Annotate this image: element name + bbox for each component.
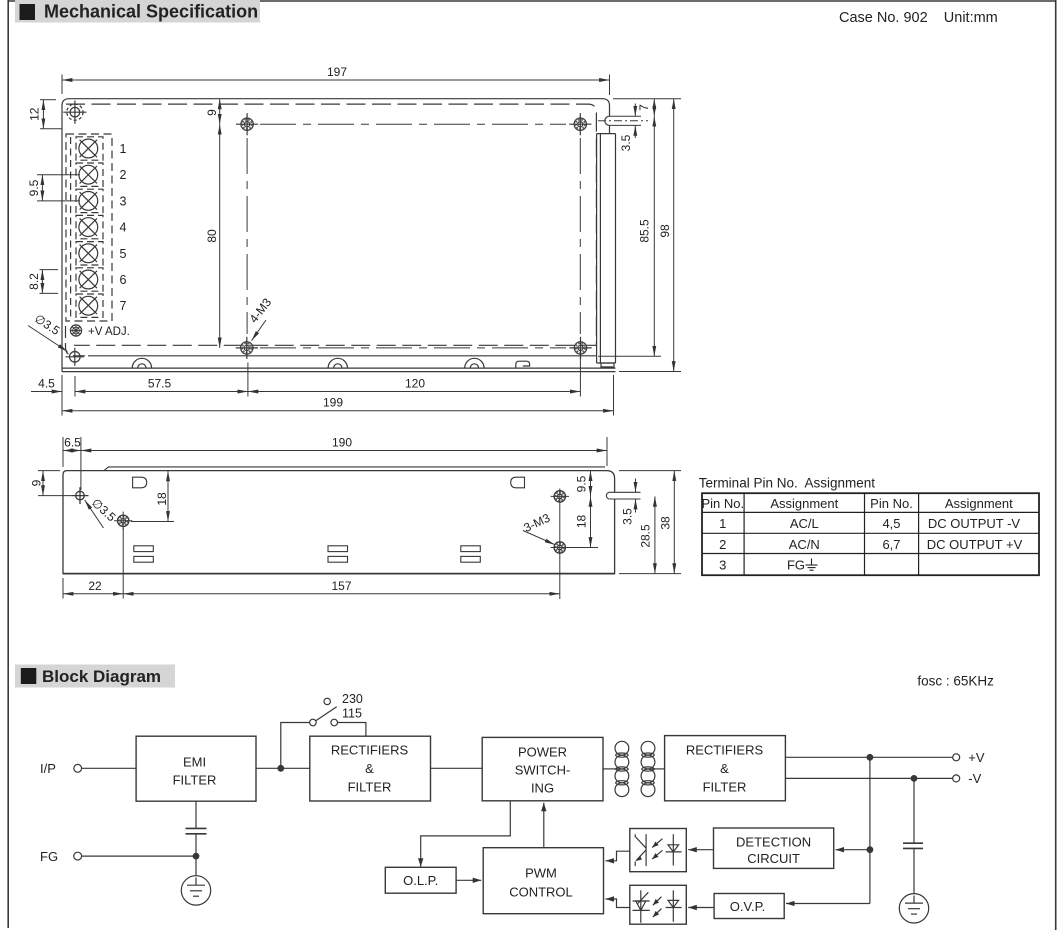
terminal 3 (76, 189, 103, 212)
section header: Mechanical Specification (15, 0, 260, 23)
feedback rail down from +V (869, 757, 871, 903)
side view: vent slots group 1 (134, 546, 154, 562)
wire capacitor C1 to FG node (195, 834, 197, 856)
table row 2 (719, 537, 1022, 552)
dim 9.5 (37, 175, 80, 201)
dim 57.5 (75, 391, 248, 393)
bottom dims extension lines (side view) (63, 528, 123, 599)
svg-text:POWER: POWER (518, 745, 567, 760)
-V terminal (953, 775, 960, 782)
wire PWM to power switching with arrow (543, 803, 545, 848)
terminal 4 (76, 215, 103, 238)
top view: case bottom flange edges (62, 368, 616, 372)
svg-text:1: 1 (120, 142, 127, 156)
svg-text:8.2: 8.2 (27, 273, 41, 290)
dim 18 (side view right) (567, 496, 598, 547)
svg-text:Mechanical Specification: Mechanical Specification (44, 2, 258, 22)
wire EMI filter to capacitor C1 (195, 801, 197, 828)
wire detection to optocoupler 1 with arrow (688, 849, 713, 851)
bottom flange arch tab 1 (132, 358, 151, 368)
svg-text:Pin No.: Pin No. (701, 496, 744, 511)
side view: top slot tab left (133, 477, 147, 488)
text RECTIFIERS & FILTER 2 (686, 743, 764, 795)
text RECTIFIERS & FILTER 1 (331, 743, 409, 795)
+V ADJ potentiometer screw (70, 325, 81, 336)
dim 38 (673, 471, 675, 574)
text DETECTION CIRCUIT (736, 835, 811, 867)
svg-text:+V ADJ.: +V ADJ. (88, 326, 130, 338)
svg-text:3-M3: 3-M3 (521, 511, 552, 535)
terminal 1 (76, 137, 103, 160)
side view: M3 hole left-bottom (114, 512, 132, 530)
svg-text:I/P: I/P (40, 761, 56, 776)
svg-text:4,5: 4,5 (882, 516, 900, 531)
protective earth symbol (output) (899, 894, 928, 923)
svg-text:2: 2 (719, 537, 726, 552)
svg-text:FILTER: FILTER (173, 773, 217, 788)
top view: case outline (62, 99, 610, 372)
dim 28.5 (654, 496, 656, 573)
bottom flange hook tab (516, 361, 530, 368)
wire I/P to EMI filter (82, 767, 137, 769)
terminal 6 (76, 268, 103, 291)
dim 157 (123, 593, 560, 595)
svg-text:5: 5 (120, 247, 127, 261)
dim 22 (63, 593, 123, 595)
terminal 7 (76, 294, 103, 317)
svg-text:-V: -V (968, 771, 981, 786)
svg-text:4: 4 (120, 221, 127, 235)
mounting hole M3 top-right (569, 113, 591, 135)
top view: dashed inner cover outline (66, 104, 597, 356)
wire OLP to PWM with arrow (456, 879, 481, 881)
svg-text:Pin No.: Pin No. (870, 496, 913, 511)
Y-capacitor C1 to FG (186, 828, 207, 833)
side view: M3 hole right-lower (551, 542, 569, 553)
output filter capacitor C2 (903, 843, 923, 848)
terminal pin assignment table (699, 476, 1039, 576)
terminal 5 (76, 242, 103, 265)
table row 1 (719, 516, 1020, 531)
page border left (7, 0, 9, 928)
svg-text:120: 120 (405, 377, 425, 391)
side view: vent slots group 3 (461, 546, 481, 562)
svg-text:85.5: 85.5 (638, 219, 652, 243)
svg-text:9: 9 (205, 109, 219, 116)
protective earth symbol (FG) (181, 876, 210, 905)
text POWER SWITCHING (515, 745, 571, 796)
svg-text:RECTIFIERS: RECTIFIERS (331, 743, 409, 758)
svg-text:80: 80 (205, 229, 219, 243)
dim 197 extension lines (62, 75, 610, 96)
dim 9 (top) (219, 99, 221, 124)
dim 199 (62, 410, 614, 412)
dim 85.5 (653, 116, 655, 356)
side view: bottom edge emphasis (63, 573, 615, 575)
wire OVP to optocoupler 2 with arrow (688, 907, 714, 909)
OVP box (714, 894, 784, 919)
svg-text:6: 6 (120, 273, 127, 287)
top view: bracket keyhole slot (598, 116, 648, 125)
node FG ground (193, 853, 199, 859)
text EMI FILTER (173, 755, 217, 788)
top view: terminal block dashed cover (66, 134, 112, 321)
label 3-M3 leader (523, 531, 555, 545)
top view: chassis screw top-left (63, 101, 86, 124)
svg-text:230: 230 (342, 692, 363, 706)
voltage selector switch (310, 698, 338, 726)
svg-text:18: 18 (575, 515, 589, 529)
side view: flange keyhole slot right (606, 492, 640, 499)
dim 3.5 (top view, outside arrows) (634, 104, 636, 139)
dim 190 line (81, 450, 607, 452)
svg-text:98: 98 (658, 224, 672, 238)
dim 6.5 (63, 450, 81, 452)
svg-text:PWM: PWM (525, 866, 557, 881)
dim 7 (653, 99, 655, 117)
svg-text:DETECTION: DETECTION (736, 835, 811, 850)
top view: terminal tabs dashed line (70, 137, 72, 318)
label 4-M3 leader arrow (252, 320, 267, 341)
table row 3 (719, 558, 805, 573)
svg-text:28.5: 28.5 (639, 524, 653, 548)
wire +V output (785, 756, 952, 758)
svg-text:∅3.5: ∅3.5 (89, 496, 119, 525)
svg-text:SWITCH-: SWITCH- (515, 763, 571, 778)
svg-text:AC/N: AC/N (789, 537, 820, 552)
wire rectifiers to power switching (431, 767, 483, 769)
dim 80 (219, 124, 221, 348)
svg-text:157: 157 (331, 579, 351, 593)
svg-text:+V: +V (968, 750, 985, 765)
wire rail to detection circuit (836, 849, 870, 851)
wire transformer to rectifiers 2 (652, 768, 665, 770)
wire EMI filter to rectifiers (256, 767, 310, 769)
side view: right holes centre line (559, 489, 561, 600)
svg-text:FILTER: FILTER (703, 780, 747, 795)
svg-text:7: 7 (120, 299, 127, 313)
svg-text:RECTIFIERS: RECTIFIERS (686, 743, 764, 758)
svg-text:FG: FG (40, 849, 58, 864)
svg-text:O.L.P.: O.L.P. (403, 873, 438, 888)
dim 3.5 (side view, outside arrows) (635, 479, 637, 513)
table header row (701, 496, 1013, 511)
EMI FILTER box (136, 736, 256, 801)
svg-text:4-M3: 4-M3 (246, 295, 274, 325)
svg-text:O.V.P.: O.V.P. (730, 899, 765, 914)
optocoupler 2 photothyristor (633, 890, 650, 923)
side view: case outline (63, 471, 615, 574)
side view: vent slots group 2 (328, 546, 348, 562)
page border top (8, 0, 1056, 2)
rectifiers and filter box 1 (310, 736, 431, 801)
node on +V rail (867, 755, 873, 761)
node at AC select branch (278, 766, 284, 772)
wire -V rail to capacitor C2 (913, 778, 915, 843)
chassis hole bottom-left dia 3.5 (66, 348, 85, 366)
bottom dims extension lines (62, 355, 614, 416)
wire node to earth symbol (195, 856, 197, 876)
node on -V rail (911, 776, 917, 782)
PWM control box (483, 848, 603, 914)
wire branch up to voltage selector (281, 723, 310, 769)
svg-text:6.5: 6.5 (64, 436, 81, 450)
side view: left screw hole dia 3.5 (72, 487, 89, 504)
svg-text:Assignment: Assignment (770, 496, 838, 511)
bottom flange arch tab 3 (465, 358, 484, 368)
svg-text:DC OUTPUT -V: DC OUTPUT -V (928, 516, 1021, 531)
transformer T1 (615, 741, 655, 796)
optocoupler 1 LED (666, 834, 682, 865)
table FG earth symbol (806, 559, 818, 571)
svg-text:9: 9 (30, 479, 44, 486)
mounting hole M3 bottom-right (569, 337, 591, 359)
label dia3.5 leader arrow (top view) (28, 326, 68, 352)
dim 18 (side view left) (131, 471, 174, 522)
svg-text:190: 190 (332, 436, 352, 450)
svg-text:1: 1 (719, 516, 726, 531)
svg-text:CIRCUIT: CIRCUIT (747, 851, 800, 866)
table grid (702, 493, 1039, 575)
mounting hole M3 bottom-left (236, 337, 258, 359)
top view: inner front wall line (88, 355, 596, 357)
side view: top slot tab right (511, 477, 525, 488)
dim 98 (673, 99, 675, 372)
svg-text:Terminal Pin No. Assignment: Terminal Pin No. Assignment (699, 476, 876, 491)
dim 9 (side view) (38, 471, 72, 496)
optocoupler 2 light arrows (653, 897, 662, 917)
optocoupler 1 phototransistor (635, 834, 646, 866)
svg-text:EMI: EMI (183, 755, 206, 770)
right side extension lines (598, 99, 681, 372)
optocoupler box 1 (630, 829, 687, 872)
wire optocoupler 1 to PWM with arrow (605, 851, 629, 861)
svg-text:22: 22 (88, 579, 102, 593)
dim 8.2 (40, 270, 59, 294)
feedback wire power switching to OLP with arrow (421, 801, 511, 867)
FG terminal (74, 852, 82, 860)
wire FG to ground (82, 855, 196, 857)
svg-text:12: 12 (28, 107, 42, 121)
svg-text:3: 3 (120, 194, 127, 208)
svg-text:3: 3 (719, 558, 726, 573)
wire -V output (785, 777, 952, 779)
top view: right mounting bracket bar (597, 134, 616, 367)
mounting hole centre lines (247, 124, 580, 348)
svg-text:199: 199 (323, 396, 343, 410)
svg-text:fosc : 65KHz: fosc : 65KHz (917, 674, 994, 689)
label dia3.5 leader (side view) (85, 500, 104, 528)
svg-text:FILTER: FILTER (348, 780, 392, 795)
I/P input terminal (74, 764, 82, 772)
svg-text:∅3.5: ∅3.5 (32, 311, 63, 338)
svg-text:Block Diagram: Block Diagram (42, 667, 161, 686)
svg-text:Assignment: Assignment (945, 496, 1013, 511)
mounting hole M3 top-left (236, 113, 258, 135)
svg-text:9.5: 9.5 (27, 179, 41, 196)
side view: M3 hole right-upper (551, 491, 569, 502)
svg-text:Case No. 902 Unit:mm: Case No. 902 Unit:mm (839, 10, 998, 26)
page border right (1055, 0, 1057, 930)
wire selector to rectifiers top (338, 723, 366, 737)
dim 197 line (62, 79, 610, 81)
wire capacitor C2 to earth (913, 848, 915, 893)
OLP box (385, 867, 456, 893)
section header: Block Diagram (15, 665, 175, 688)
wire rail to OVP with arrow (786, 903, 870, 905)
terminal 2 (76, 163, 103, 186)
+V terminal (953, 754, 960, 761)
svg-text:57.5: 57.5 (148, 377, 172, 391)
svg-text:9.5: 9.5 (575, 475, 589, 492)
side view: cover lip line (104, 467, 605, 471)
svg-text:ING: ING (531, 781, 554, 796)
dim 120 (248, 391, 581, 393)
svg-text:2: 2 (120, 168, 127, 182)
node feedback to detection (867, 847, 873, 853)
wire power switching to transformer (603, 768, 618, 770)
svg-text:18: 18 (155, 492, 169, 506)
bottom flange arch tab 2 (328, 358, 347, 368)
svg-text:38: 38 (659, 516, 673, 530)
svg-text:197: 197 (327, 65, 347, 79)
svg-text:AC/L: AC/L (790, 516, 819, 531)
svg-text:&: & (365, 761, 374, 776)
optocoupler 1 light arrows (652, 839, 662, 859)
svg-text:CONTROL: CONTROL (509, 885, 573, 900)
power switching box (482, 737, 603, 800)
svg-text:DC OUTPUT +V: DC OUTPUT +V (927, 537, 1023, 552)
wire optocoupler 2 to PWM with arrow (605, 899, 629, 908)
svg-text:4.5: 4.5 (38, 377, 55, 391)
dim 190 extension lines (63, 437, 607, 490)
optocoupler box 2 (630, 885, 687, 924)
dim 12 (40, 100, 62, 129)
text PWM CONTROL (509, 866, 573, 900)
dim 9.5 (side view) (590, 471, 592, 497)
optocoupler 2 LED (666, 890, 682, 922)
terminal numbers 1-7 (120, 142, 127, 313)
rectifiers and filter box 2 (665, 736, 786, 801)
svg-text:6,7: 6,7 (882, 537, 900, 552)
svg-text:&: & (720, 761, 729, 776)
dim 4.5 left tail (31, 391, 62, 393)
right side extension lines (side view) (619, 471, 681, 574)
svg-text:7: 7 (637, 104, 651, 111)
svg-text:3.5: 3.5 (621, 508, 635, 525)
svg-text:115: 115 (342, 707, 362, 721)
svg-text:3.5: 3.5 (619, 134, 633, 151)
detection circuit box (714, 828, 834, 868)
svg-text:FG: FG (787, 558, 805, 573)
